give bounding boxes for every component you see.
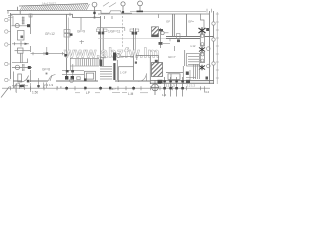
svg-text:4.2: 4.2 (205, 90, 210, 94)
dimension node dots (65, 87, 135, 90)
hatched wall stub left upper (13, 16, 25, 26)
top line right section (101, 10, 206, 13)
bottom wall segments (13, 81, 214, 84)
shaft dark hatch block lower (152, 63, 163, 77)
roof hatch strokes (20, 4, 90, 11)
window cross symbol 3 (199, 65, 205, 70)
svg-text:GF: GF (166, 20, 170, 24)
top wall mid span (98, 13, 209, 15)
grid marker circle C (138, 1, 143, 12)
svg-text:2.1 1.9: 2.1 1.9 (44, 83, 54, 87)
left arrow line (12, 41, 29, 47)
bottom-right node dots (163, 80, 184, 89)
interior dimension line mid-left (31, 47, 67, 55)
svg-text:1/GF=11: 1/GF=11 (108, 30, 120, 34)
dimension ticks (11, 86, 205, 92)
stair mid landing lines (62, 58, 84, 76)
right stair treads (187, 54, 200, 67)
svg-text:L.P: L.P (58, 86, 62, 90)
entry circle fixture (70, 79, 74, 83)
stair upper flight vertical hatch (70, 58, 99, 66)
door jamb marks mid right (177, 34, 181, 39)
corridor wall faint (98, 38, 166, 40)
duct rectangle left (18, 31, 25, 41)
small dashes near bottom mid (75, 92, 148, 94)
interior wall x66 (66, 14, 68, 76)
fixture on x133 (130, 29, 133, 32)
leader diagonal bottom-left (1, 87, 10, 98)
right rooms walls (173, 14, 187, 37)
radiator boxes on wall x66 (64, 30, 70, 38)
svg-text:GF=: GF= (188, 20, 194, 24)
right boundary double wall (210, 11, 214, 84)
svg-text:2.1 2.3: 2.1 2.3 (166, 83, 176, 87)
small circle marker right (207, 47, 211, 51)
interior wall x100 (101, 16, 104, 66)
right wall jog top (201, 14, 205, 28)
circled survey marker bottom (151, 80, 159, 95)
svg-text:14x170/27: 14x170/27 (42, 2, 56, 6)
column box 1 (200, 34, 204, 46)
column box 2 (200, 53, 204, 63)
svg-text:L.M: L.M (128, 92, 134, 96)
small circle marker right lower (207, 64, 211, 68)
wc box (85, 71, 96, 81)
interior wall x30 (30, 14, 32, 83)
top right end ticks (207, 9, 212, 13)
bottom-left annotation cluster (12, 83, 28, 92)
svg-text:GF=7: GF=7 (168, 55, 176, 59)
right edge dimension ticks (216, 12, 219, 84)
left duct lower (12, 53, 28, 63)
lobby threshold (100, 57, 106, 59)
lobby door dark jambs (113, 53, 116, 61)
mid room top wall (136, 56, 159, 66)
svg-text:LP: LP (86, 91, 90, 95)
left fixture row lower: circle valve (12, 65, 32, 69)
door jamb dark right (186, 72, 189, 75)
svg-text:GF=9: GF=9 (77, 30, 85, 34)
door arc lower mid (139, 74, 147, 82)
interior wall x133 (133, 28, 135, 80)
lower-mid room box (118, 56, 133, 82)
left fixture mid (15, 48, 31, 53)
right stair vertical hatch (194, 65, 200, 80)
dashed partition x122 (122, 16, 124, 48)
left boundary wall (10, 13, 12, 79)
bottom-right vertical rails (165, 77, 183, 97)
window cross symbol 1 (199, 27, 206, 33)
slope annotation dashes (103, 2, 116, 7)
stair side dark stringer (113, 63, 115, 80)
hatched roof band (7, 4, 101, 14)
top wall left span (11, 14, 101, 17)
window cross symbol 2 (199, 47, 205, 52)
shaft dark hatch block upper (152, 27, 159, 37)
bottom wall heavy chunks (158, 80, 163, 83)
right room table (166, 73, 183, 80)
corridor wall right strong (166, 36, 214, 38)
grid marker circle B (121, 2, 125, 14)
svg-text:0F7: 0F7 (111, 87, 116, 91)
door swing bottom mid-left (49, 75, 56, 82)
svg-text:1 GF: 1 GF (120, 71, 127, 75)
svg-text:1.4: 1.4 (162, 93, 167, 97)
svg-text:2.2 1.3: 2.2 1.3 (187, 83, 196, 87)
fixtures right of shaft (161, 28, 165, 48)
grid marker circle A (92, 2, 97, 17)
svg-text:GF=8: GF=8 (42, 68, 50, 72)
svg-text:GF=12: GF=12 (45, 32, 55, 36)
door leaf bottom-left (14, 72, 29, 89)
svg-text:n.12: n.12 (190, 44, 196, 48)
fixture marks on wall x100 (96, 29, 99, 32)
hatched wall stub left lower (22, 64, 25, 71)
svg-text:1.50: 1.50 (32, 91, 38, 95)
bottom main dimension line (2, 87, 210, 89)
left fixture row upper: circle valve (12, 24, 31, 28)
stair lower flight horizontal treads (100, 67, 112, 80)
upper room bottom wall (97, 27, 125, 29)
entry piers dark blocks (65, 76, 68, 80)
stub wall x81 (80, 18, 82, 31)
